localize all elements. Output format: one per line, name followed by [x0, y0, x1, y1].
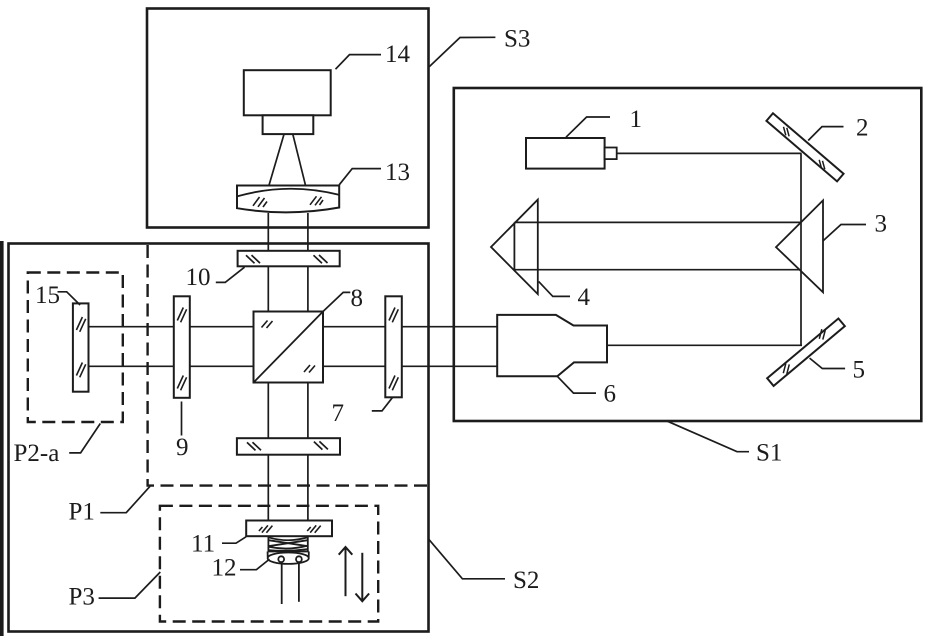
prism 4 (corner cube) — [491, 200, 538, 295]
svg-text:S2: S2 — [513, 567, 539, 594]
leader P1 — [100, 486, 150, 512]
svg-text:11: 11 — [191, 531, 215, 558]
leader 11 — [222, 537, 246, 543]
beam from 6 to mirror5 — [607, 344, 802, 346]
leader 8 — [323, 292, 350, 311]
leader 2 — [808, 127, 843, 141]
light cone from 14 to 13 — [269, 135, 306, 186]
leader 4 — [539, 281, 570, 296]
leader 13 — [339, 169, 381, 185]
dashed box P3 — [160, 506, 378, 622]
svg-text:2: 2 — [856, 115, 869, 142]
box S1 — [454, 88, 922, 421]
svg-text:P1: P1 — [69, 499, 95, 526]
leader 10 — [216, 267, 245, 282]
leader 9 — [181, 402, 183, 436]
svg-text:12: 12 — [212, 555, 237, 582]
leader S2 — [429, 539, 505, 579]
plate 11 — [246, 521, 332, 537]
plate 10 — [238, 251, 340, 266]
objective 12 — [268, 537, 309, 605]
leader 3 — [823, 225, 866, 241]
leader 1 — [566, 117, 610, 137]
leader 6 — [557, 376, 596, 393]
svg-text:S1: S1 — [756, 440, 782, 467]
svg-text:14: 14 — [385, 41, 411, 68]
svg-text:6: 6 — [604, 381, 617, 408]
plate 9 — [174, 296, 190, 398]
lens 13 — [237, 186, 339, 213]
vertical beam left — [267, 213, 269, 522]
svg-text:1: 1 — [630, 106, 643, 133]
dashed box P1 — [148, 245, 429, 486]
compensator plate below cube — [237, 438, 340, 455]
leader P3 — [99, 572, 161, 598]
laser 1 — [526, 138, 617, 169]
beamsplitter cube 8 — [254, 312, 324, 383]
svg-text:7: 7 — [332, 400, 345, 427]
up/down motion arrows — [339, 547, 369, 601]
collimator 6 — [497, 315, 607, 376]
leader 5 — [810, 358, 846, 368]
beam upper prism4-prism3 — [514, 221, 801, 223]
leader P2-a — [69, 424, 100, 453]
svg-text:4: 4 — [578, 284, 591, 311]
svg-text:P3: P3 — [69, 584, 95, 611]
plate 15 — [73, 303, 89, 391]
mirror 5 — [767, 318, 845, 385]
leader 15 — [58, 292, 81, 305]
leader 12 — [240, 559, 270, 570]
vertical beam right — [307, 213, 309, 522]
horizontal beam upper — [88, 326, 498, 328]
dashed box P2-a — [28, 273, 123, 423]
svg-text:10: 10 — [186, 264, 211, 291]
camera 14 — [244, 70, 331, 134]
svg-text:P2-a: P2-a — [14, 440, 60, 467]
box S2 — [9, 244, 429, 632]
svg-text:5: 5 — [853, 357, 866, 384]
leader 14 — [336, 55, 382, 70]
svg-text:9: 9 — [176, 434, 189, 461]
vertical beam mirror2 to mirror5 — [800, 153, 802, 346]
mirror 2 — [766, 113, 843, 181]
box S3 — [147, 9, 429, 228]
leader S3 — [429, 37, 495, 67]
prism 3 — [776, 200, 823, 292]
horizontal beam lower — [88, 365, 498, 367]
svg-text:8: 8 — [351, 285, 364, 312]
laser beam from 1 to mirror 2 — [617, 152, 802, 154]
beam lower prism4-prism3 — [514, 269, 799, 271]
svg-text:S3: S3 — [504, 26, 530, 53]
leader S1 — [667, 421, 750, 452]
svg-text:3: 3 — [875, 211, 888, 238]
svg-text:13: 13 — [385, 159, 410, 186]
left scan border bar — [0, 241, 4, 636]
svg-text:15: 15 — [35, 282, 60, 309]
plate 7 — [385, 296, 402, 397]
leader 7 — [372, 397, 393, 411]
